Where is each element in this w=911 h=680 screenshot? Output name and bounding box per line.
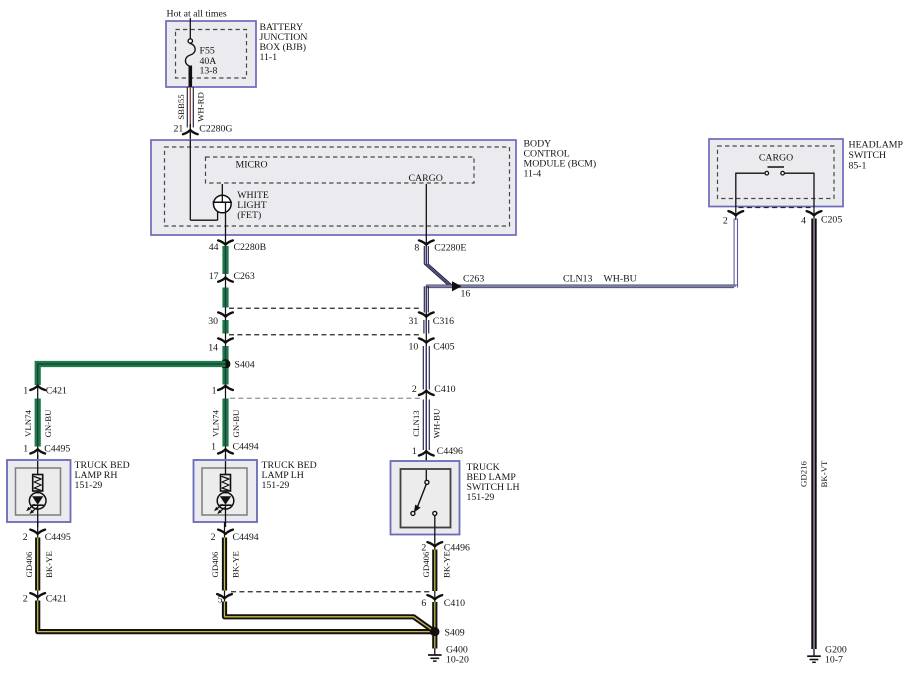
- connector C316 pin 30 arrow: [218, 312, 233, 316]
- svg-text:6: 6: [421, 598, 426, 609]
- svg-text:HEADLAMP: HEADLAMP: [849, 140, 904, 151]
- wire GN-BU: [222, 288, 228, 308]
- wire lamp RH to pin 2: [37, 505, 39, 527]
- svg-text:GD406: GD406: [421, 551, 431, 578]
- svg-text:C263: C263: [463, 274, 484, 285]
- wire GD406 BK-YE (bed switch): [432, 550, 437, 592]
- svg-text:GD406: GD406: [210, 551, 220, 578]
- svg-text:C263: C263: [234, 271, 255, 282]
- wire WH-BU diagonal jog to C263: [424, 264, 447, 285]
- wire WH-BU: [423, 320, 425, 334]
- headlamp switch outline: [709, 139, 843, 207]
- svg-text:C421: C421: [46, 386, 67, 397]
- wire GN-BU BCM pin44 down: [225, 244, 227, 460]
- wire: CARGO output inside BCM pin 8: [425, 184, 427, 244]
- svg-text:C4495: C4495: [45, 532, 71, 543]
- svg-text:C2280G: C2280G: [199, 123, 232, 134]
- connector C205 pin 2 arrow: [728, 211, 743, 215]
- svg-text:C405: C405: [433, 342, 454, 353]
- svg-text:5: 5: [218, 595, 223, 606]
- wire switch output to pin 2: [434, 516, 436, 541]
- svg-text:C316: C316: [433, 316, 454, 327]
- connector C4496 pin 1 arrow: [419, 451, 434, 455]
- lamp LH resistor element: [225, 461, 227, 475]
- wire core RH lamp to C421: [37, 522, 39, 604]
- dashed tie connector C405: [229, 334, 422, 336]
- svg-text:S409: S409: [445, 628, 465, 639]
- connector C4494 pin 1 arrow: [218, 449, 233, 453]
- svg-text:10-7: 10-7: [825, 654, 843, 665]
- svg-text:BK-YE: BK-YE: [230, 551, 240, 578]
- svg-text:17: 17: [209, 271, 219, 282]
- wire lamp LH to pin 2: [225, 505, 227, 527]
- splice S409: [431, 628, 439, 636]
- svg-text:GD216: GD216: [799, 460, 809, 487]
- svg-text:4: 4: [801, 216, 806, 227]
- svg-text:31: 31: [409, 316, 419, 327]
- svg-text:2: 2: [23, 594, 28, 605]
- svg-text:C410: C410: [444, 598, 465, 609]
- svg-text:85-1: 85-1: [849, 161, 867, 172]
- svg-text:BK-YE: BK-YE: [442, 551, 452, 578]
- dashed tie connector C316: [229, 307, 422, 309]
- svg-text:1: 1: [23, 386, 28, 397]
- dashed tie connector C410 lower: [231, 591, 430, 593]
- connector C421 pin 2 arrow: [30, 593, 45, 597]
- svg-text:11-4: 11-4: [524, 169, 542, 180]
- wire GN-BU branch to RH lamp: [37, 364, 39, 460]
- svg-text:SBB55: SBB55: [176, 94, 186, 120]
- body control module (BCM) outline: [151, 140, 516, 235]
- svg-text:GD406: GD406: [24, 551, 34, 578]
- truck bed lamp LH outline: [194, 460, 258, 522]
- svg-text:2: 2: [23, 532, 28, 543]
- svg-text:151-29: 151-29: [75, 480, 103, 491]
- connector C2280G pin 21 arrow: [183, 130, 198, 134]
- connector C205 pin 4 arrow: [807, 211, 822, 215]
- connector C410 pin 6 arrow: [427, 595, 442, 599]
- svg-text:44: 44: [209, 242, 219, 253]
- svg-text:1: 1: [23, 444, 28, 455]
- svg-text:2: 2: [211, 532, 216, 543]
- battery junction box (BJB) outline: [166, 21, 256, 87]
- wire GN-BU VLN74 to RH lamp: [35, 399, 41, 447]
- wire WH-BU headlamp pin 2 down to CLN13 run: [733, 219, 735, 286]
- svg-text:BK-YE: BK-YE: [44, 551, 54, 578]
- wire: feed into fuse: [189, 18, 191, 39]
- wire GN-BU: [222, 320, 228, 334]
- svg-text:WH-RD: WH-RD: [196, 92, 206, 122]
- wire WH-BU: [422, 346, 424, 390]
- svg-text:Hot at all times: Hot at all times: [167, 9, 227, 20]
- ground G400 symbol: [428, 654, 442, 656]
- connector C4495 pin 1 arrow: [30, 449, 45, 453]
- connector C263 pin 17 arrow: [218, 277, 233, 281]
- connector C421 pin 1 arrow (RH branch): [30, 386, 45, 390]
- svg-text:C4494: C4494: [233, 532, 259, 543]
- dashed tie connector C410 upper: [230, 397, 421, 399]
- wire core headlamp pin4: [813, 206, 815, 220]
- wire SBB55 WH-RD: fuse to BCM: [186, 87, 188, 128]
- svg-text:2: 2: [723, 216, 728, 227]
- switch SW1 contacts: [768, 166, 785, 168]
- svg-text:CLN13: CLN13: [563, 274, 592, 285]
- wire GN-BU down to LH lamp: [222, 368, 228, 385]
- svg-text:2: 2: [412, 384, 417, 395]
- svg-text:151-29: 151-29: [262, 480, 290, 491]
- wire GN-BU: [222, 346, 228, 360]
- connector C410 pin 1 arrow (left): [218, 386, 233, 390]
- wire GN-BU VLN74 to LH lamp: [222, 399, 228, 447]
- wire GD406 BK-YE (LH lamp): [222, 538, 227, 591]
- svg-text:151-29: 151-29: [467, 492, 495, 503]
- svg-text:GN-BU: GN-BU: [231, 409, 241, 438]
- MICRO dashed block: [206, 157, 475, 183]
- svg-text:BK-VT: BK-VT: [819, 460, 829, 488]
- svg-text:8: 8: [414, 243, 419, 254]
- fuse F55 40A 13-8: [188, 39, 192, 43]
- svg-text:S404: S404: [235, 360, 255, 371]
- wire core headlamp pin2: [735, 206, 737, 220]
- inline connector C263 pin 16 arrow: [452, 281, 462, 291]
- lamp LH LED D2: [225, 491, 227, 494]
- svg-text:VLN74: VLN74: [23, 409, 33, 436]
- wire BK-YE LH to splice S409: [225, 602, 434, 631]
- ground G200 symbol: [813, 649, 815, 656]
- connector C410 pin 5 arrow: [217, 594, 232, 598]
- svg-text:13-8: 13-8: [200, 65, 218, 76]
- connector C316 pin 31 arrow: [419, 312, 434, 316]
- splice S404: [221, 360, 230, 369]
- svg-text:MICRO: MICRO: [236, 160, 268, 171]
- svg-text:C4494: C4494: [233, 442, 259, 453]
- svg-text:C4496: C4496: [437, 446, 463, 457]
- wire CLN13 WH-BU to bed lamp switch: [422, 400, 424, 451]
- svg-text:CARGO: CARGO: [409, 173, 443, 184]
- svg-text:1: 1: [211, 442, 216, 453]
- svg-text:CLN13: CLN13: [411, 410, 421, 437]
- wire CLN13 WH-BU horizontal run to headlamp switch: [426, 284, 737, 286]
- wire GD216 BK-VT headlamp pin 4 to G200: [811, 219, 816, 650]
- svg-text:C410: C410: [434, 384, 455, 395]
- wire: FET drain out of BCM pin 44: [225, 202, 227, 244]
- svg-text:(FET): (FET): [237, 210, 261, 221]
- svg-text:WH-BU: WH-BU: [431, 408, 441, 438]
- wire: switch right contact to pin 4: [785, 173, 814, 206]
- switch SW2 contacts: [425, 470, 427, 481]
- lamp RH resistor element: [37, 461, 39, 475]
- svg-text:VLN74: VLN74: [211, 409, 221, 436]
- svg-text:GN-BU: GN-BU: [43, 409, 53, 438]
- lamp RH LED D1: [37, 491, 39, 494]
- wire WH-BU down from horizontal run: [423, 286, 425, 312]
- svg-text:C4495: C4495: [44, 444, 70, 455]
- wire WH-BU from BCM pin 8: [425, 244, 427, 265]
- svg-text:14: 14: [208, 343, 218, 354]
- svg-text:16: 16: [461, 289, 471, 300]
- svg-text:C421: C421: [46, 594, 67, 605]
- svg-text:1: 1: [412, 446, 417, 457]
- wire: feed inside BCM to FET: [189, 140, 191, 220]
- wire core LH lamp to C410 pin5: [224, 522, 226, 604]
- connector C405 pin 14 arrow: [218, 338, 233, 342]
- svg-text:30: 30: [208, 316, 218, 327]
- svg-text:21: 21: [174, 123, 184, 134]
- connector C4494 pin 2 arrow: [218, 530, 233, 534]
- connector C2280B pin 44 arrow: [218, 240, 233, 244]
- connector C4495 pin 2 arrow: [30, 530, 45, 534]
- dashed tie connector C205: [739, 207, 811, 209]
- svg-text:C2280B: C2280B: [234, 242, 267, 253]
- truck bed lamp switch LH outline: [391, 461, 460, 535]
- connector C405 pin 10 arrow: [419, 338, 434, 342]
- truck bed lamp RH outline: [7, 460, 71, 522]
- svg-text:SWITCH: SWITCH: [849, 150, 887, 161]
- wire GD406 BK-YE (RH lamp): [35, 538, 40, 591]
- connector C2280E pin 8 arrow: [419, 240, 434, 244]
- wire BK-YE RH to splice S409: [38, 601, 433, 632]
- connector C410 pin 2 arrow: [419, 391, 434, 395]
- wire core bed switch to S409: [434, 540, 436, 650]
- svg-text:11-1: 11-1: [260, 52, 278, 63]
- connector C4496 pin 2 arrow: [427, 542, 442, 546]
- wire BK-YE to splice S409: [432, 602, 437, 628]
- svg-text:CARGO: CARGO: [759, 153, 793, 164]
- op-amp-like FET driver symbol (WHITE LIGHT FET) U-BCM: [214, 195, 232, 213]
- svg-text:C2280E: C2280E: [434, 243, 466, 254]
- svg-text:10: 10: [409, 342, 419, 353]
- svg-text:WH-BU: WH-BU: [604, 274, 637, 285]
- svg-text:1: 1: [212, 386, 217, 397]
- wire to ground G400: [432, 636, 437, 649]
- svg-text:10-20: 10-20: [446, 654, 469, 665]
- wire: switch left contact to pin 2: [736, 173, 765, 206]
- svg-text:C205: C205: [821, 215, 842, 226]
